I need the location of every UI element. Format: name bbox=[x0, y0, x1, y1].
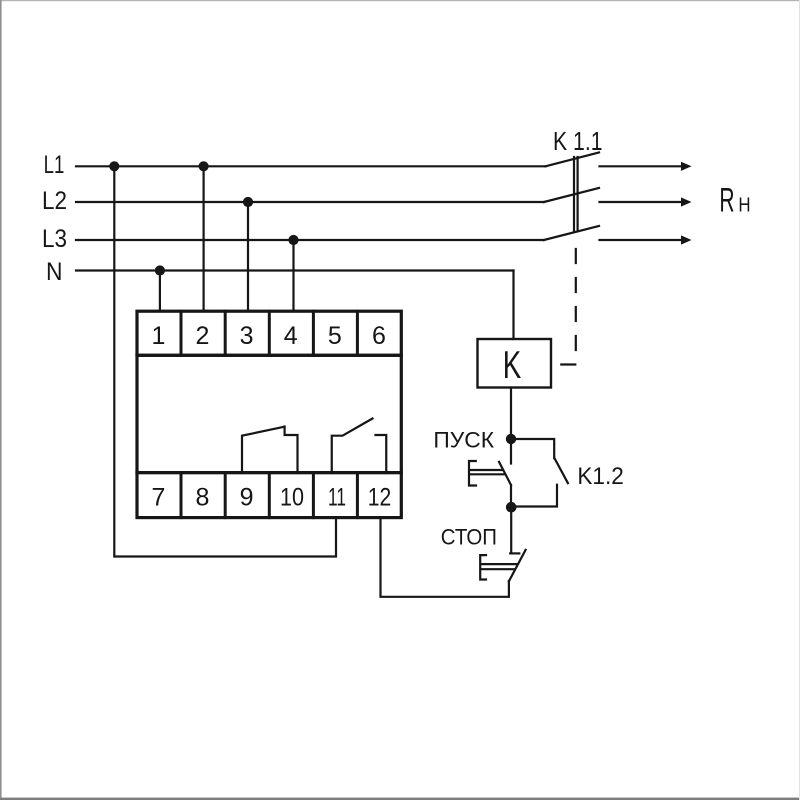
svg-text:12: 12 bbox=[368, 484, 392, 512]
svg-text:11: 11 bbox=[328, 484, 346, 512]
wire L1 rail bbox=[76, 165, 546, 167]
contactor K1.1 pole 3 blade bbox=[544, 226, 599, 240]
contactor K1.1 mechanical linkage bar bbox=[574, 157, 578, 231]
svg-text:7: 7 bbox=[152, 484, 166, 512]
svg-text:6: 6 bbox=[372, 322, 386, 350]
terminal dividers bottom row bbox=[181, 473, 357, 518]
wire L3 junction down to terminal 4 bbox=[292, 240, 294, 311]
wire L2 junction down to terminal 3 bbox=[247, 202, 249, 311]
terminal dividers top row bbox=[181, 311, 357, 355]
pushbutton PUSK contact bbox=[499, 444, 511, 503]
coil K box bbox=[478, 339, 552, 388]
svg-text:3: 3 bbox=[240, 322, 254, 350]
wire N rail bbox=[76, 269, 514, 271]
svg-text:4: 4 bbox=[284, 322, 298, 350]
relay device bottom terminal row outline bbox=[137, 473, 401, 518]
svg-text:1: 1 bbox=[152, 322, 166, 350]
wire N rail down to coil K bbox=[512, 271, 514, 340]
svg-text:L1: L1 bbox=[44, 151, 65, 179]
junction on L1 feeding terminal 2 bbox=[199, 161, 209, 171]
svg-text:L2: L2 bbox=[42, 187, 67, 215]
svg-text:ПУСК: ПУСК bbox=[433, 428, 494, 453]
svg-text:L3: L3 bbox=[42, 225, 67, 253]
svg-text:8: 8 bbox=[196, 484, 210, 512]
dashed mechanical link from coil K to contacts K1.1 bbox=[551, 234, 576, 365]
junction on N feeding terminal 1 bbox=[155, 265, 165, 275]
pushbutton STOP actuator bbox=[480, 555, 516, 579]
junction on L3 feeding terminal 4 bbox=[288, 235, 298, 245]
wire L1 bypass down left side to terminal 11 bbox=[114, 166, 336, 556]
svg-text:H: H bbox=[738, 194, 750, 217]
wire coil K to PUSK node bbox=[510, 388, 512, 439]
contactor K1.1 pole 1 blade bbox=[546, 153, 600, 167]
svg-text:5: 5 bbox=[328, 322, 342, 350]
svg-text:10: 10 bbox=[280, 484, 304, 512]
svg-text:R: R bbox=[719, 182, 734, 220]
junction on L2 feeding terminal 3 bbox=[243, 197, 253, 207]
relay internal contact 11-12 bbox=[332, 419, 387, 474]
contactor K1.1 pole 2 blade bbox=[544, 188, 599, 202]
wire L1 junction down to terminal 2 bbox=[203, 166, 205, 311]
relay internal contact 9-10 bbox=[242, 427, 298, 474]
svg-text:2: 2 bbox=[196, 322, 210, 350]
svg-text:K: K bbox=[503, 344, 522, 387]
svg-text:N: N bbox=[46, 258, 63, 286]
relay device top terminal row outline bbox=[137, 311, 401, 355]
pushbutton STOP contact blade bbox=[509, 550, 526, 582]
wire branch to K1.2 contact bbox=[516, 439, 554, 458]
auxiliary contact K1.2 lower leg bbox=[517, 485, 558, 507]
wire STOP contact to terminal 12 bbox=[381, 518, 509, 597]
auxiliary contact K1.2 blade bbox=[555, 458, 568, 483]
pushbutton STOP contact seat bbox=[510, 552, 519, 554]
wire phase 1 output arrow bbox=[600, 165, 684, 167]
relay device body outline bbox=[137, 355, 401, 472]
wire phase 2 output arrow bbox=[600, 201, 684, 203]
wire N junction down to terminal 1 bbox=[159, 271, 161, 312]
svg-text:K1.2: K1.2 bbox=[577, 463, 623, 490]
node PUSK top junction bbox=[506, 434, 516, 444]
wire phase 3 output arrow bbox=[600, 239, 684, 241]
wire L2 rail bbox=[76, 201, 544, 203]
svg-text:K 1.1: K 1.1 bbox=[553, 126, 603, 156]
node STOP junction bbox=[506, 502, 517, 513]
wire STOP node down to STOP contact bbox=[510, 513, 512, 554]
svg-text:СТОП: СТОП bbox=[441, 525, 497, 550]
junction on L1 feeding left bypass wire bbox=[109, 161, 119, 171]
pushbutton PUSK actuator bbox=[469, 461, 504, 486]
svg-text:9: 9 bbox=[240, 484, 254, 512]
wire L3 rail bbox=[76, 239, 544, 241]
